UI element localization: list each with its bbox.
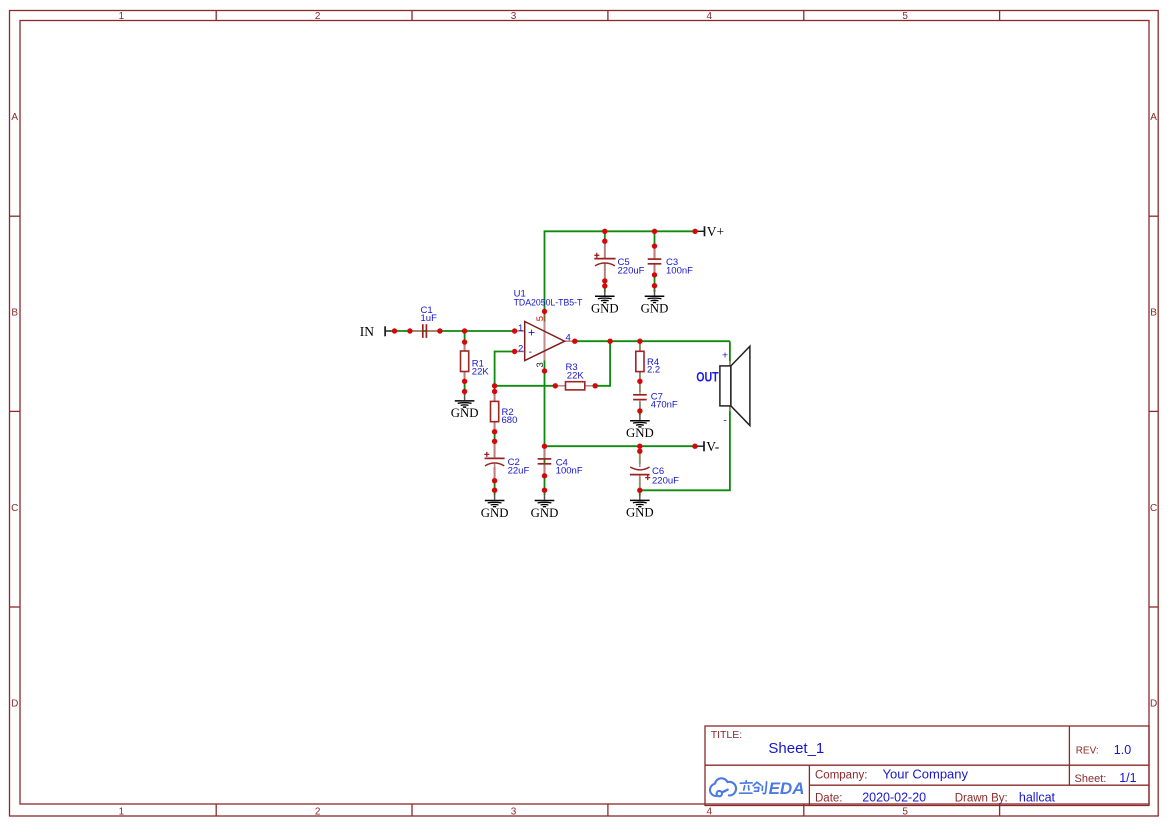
ground under C4 xyxy=(531,494,559,520)
svg-text:B: B xyxy=(11,307,18,318)
svg-text:Sheet_1: Sheet_1 xyxy=(768,740,824,757)
svg-text:100nF: 100nF xyxy=(556,466,583,477)
ground under C5 xyxy=(591,290,619,316)
wire output net xyxy=(575,340,730,342)
wire R4 branch xyxy=(639,341,641,392)
svg-text:Your Company: Your Company xyxy=(883,766,969,781)
capacitor C5 electrolytic xyxy=(594,231,644,292)
svg-text:3: 3 xyxy=(511,11,517,22)
svg-text:D: D xyxy=(1150,699,1157,710)
svg-text:3: 3 xyxy=(535,362,546,367)
svg-text:220uF: 220uF xyxy=(618,266,645,277)
ground under C3 xyxy=(641,290,669,316)
svg-text:5: 5 xyxy=(902,807,908,818)
capacitor C7 xyxy=(633,381,678,411)
svg-text:1: 1 xyxy=(119,11,125,22)
CIRCUIT xyxy=(360,224,750,520)
wire pin2 feedback vertical xyxy=(495,352,515,386)
svg-text:22uF: 22uF xyxy=(508,466,530,477)
svg-text:Date:: Date: xyxy=(815,792,843,804)
ground under R1 xyxy=(451,394,479,420)
wire V- rail horizontal xyxy=(545,445,696,447)
svg-text:1uF: 1uF xyxy=(421,313,438,324)
svg-text:4: 4 xyxy=(707,11,713,22)
svg-text:OUT: OUT xyxy=(696,369,719,384)
svg-text:2020-02-20: 2020-02-20 xyxy=(862,791,926,805)
speaker OUT xyxy=(696,346,750,426)
svg-text:470nF: 470nF xyxy=(651,400,678,411)
capacitor C2 electrolytic xyxy=(484,441,529,480)
svg-text:C: C xyxy=(11,503,18,514)
port V- xyxy=(695,439,720,454)
svg-text:1: 1 xyxy=(119,807,125,818)
ground under C2 xyxy=(481,494,509,520)
capacitor C1 xyxy=(412,305,438,338)
svg-text:TDA2050L-TB5-T: TDA2050L-TB5-T xyxy=(514,298,583,309)
wire R1 branch down xyxy=(464,331,466,395)
svg-text:3: 3 xyxy=(511,807,517,818)
svg-text:22K: 22K xyxy=(567,370,585,381)
resistor R4 xyxy=(636,341,660,381)
wire feedback horizontal to R3 xyxy=(495,385,556,387)
svg-text:A: A xyxy=(11,112,18,123)
svg-text:2: 2 xyxy=(315,807,321,818)
svg-text:V+: V+ xyxy=(707,224,724,239)
wire input net IN to pin1 xyxy=(390,330,515,332)
svg-text:+: + xyxy=(722,350,728,362)
wire C2 bottom to GND xyxy=(494,467,496,495)
svg-text:Drawn By:: Drawn By: xyxy=(955,792,1008,804)
svg-text:22K: 22K xyxy=(472,367,490,378)
svg-text:4: 4 xyxy=(566,333,571,344)
svg-text:-: - xyxy=(723,414,727,426)
wire C7 to GND xyxy=(639,402,641,415)
svg-text:+: + xyxy=(528,326,535,340)
wire R3 right to output xyxy=(595,341,610,386)
svg-text:2.2: 2.2 xyxy=(647,365,660,376)
svg-text:C: C xyxy=(1150,503,1157,514)
svg-text:5: 5 xyxy=(535,316,546,321)
svg-text:4: 4 xyxy=(707,807,713,818)
svg-text:Sheet:: Sheet: xyxy=(1075,773,1107,785)
svg-text:680: 680 xyxy=(502,415,518,426)
ground under C6 xyxy=(626,494,654,520)
svg-text:V-: V- xyxy=(706,439,720,454)
wire C6 branch xyxy=(639,446,641,464)
resistor R2 xyxy=(491,392,518,432)
resistor R3 xyxy=(555,362,595,390)
wire R2 to C2 to GND xyxy=(494,386,496,457)
svg-text:B: B xyxy=(1150,307,1157,318)
capacitor C3 xyxy=(648,231,693,292)
svg-text:Company:: Company: xyxy=(815,769,867,781)
op-amp U1 xyxy=(514,289,583,368)
svg-text:1.0: 1.0 xyxy=(1114,743,1131,757)
svg-text:2: 2 xyxy=(518,343,523,354)
svg-text:EDA: EDA xyxy=(769,779,805,798)
svg-text:100nF: 100nF xyxy=(666,266,693,277)
svg-text:IN: IN xyxy=(360,324,374,339)
svg-text:1: 1 xyxy=(518,323,523,334)
capacitor C6 electrolytic xyxy=(630,451,679,490)
svg-text:TITLE:: TITLE: xyxy=(711,729,743,741)
svg-text:A: A xyxy=(1150,112,1157,123)
svg-text:220uF: 220uF xyxy=(652,476,679,487)
wire opamp center vertical pin5/pin3 xyxy=(544,311,546,446)
port V+ xyxy=(695,224,724,239)
svg-text:5: 5 xyxy=(902,11,908,22)
wire C6 bottom to GND and speaker return xyxy=(640,341,730,495)
svg-text:hallcat: hallcat xyxy=(1019,791,1056,805)
resistor R1 xyxy=(461,342,490,381)
svg-text:D: D xyxy=(11,699,18,710)
svg-text:-: - xyxy=(529,346,533,358)
svg-text:REV:: REV: xyxy=(1076,746,1099,757)
svg-text:1/1: 1/1 xyxy=(1119,771,1136,785)
junction dots xyxy=(392,229,698,493)
wire C4 down to GND xyxy=(544,446,546,495)
ground under C7 xyxy=(626,414,654,440)
capacitor C4 xyxy=(538,446,583,477)
port IN xyxy=(360,324,391,339)
svg-text:2: 2 xyxy=(315,11,321,22)
wire V+ rail horizontal xyxy=(545,231,696,311)
